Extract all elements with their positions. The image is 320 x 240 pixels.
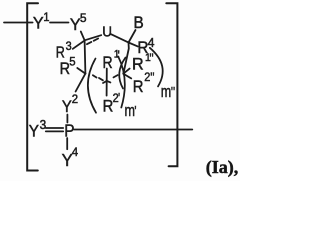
wire ring dash left 1 <box>93 75 97 77</box>
node Y2 <box>62 99 72 117</box>
wire Y1-Y5 bond <box>50 22 69 24</box>
paren m'' left <box>119 58 125 89</box>
paren m'' right <box>150 48 163 87</box>
wire Y2-P bond <box>66 115 68 123</box>
svg-text:2: 2 <box>72 93 78 106</box>
wire C1-R3 bond <box>73 41 85 49</box>
svg-text:Y: Y <box>29 122 39 141</box>
label m' <box>125 101 135 120</box>
svg-text:'': '' <box>149 51 153 66</box>
svg-text:5: 5 <box>80 11 87 25</box>
wire C3 chain bond down <box>123 43 128 74</box>
wire central chevron <box>103 81 110 83</box>
wire U-C3 bond <box>111 34 129 42</box>
wire ring dash left 2 <box>99 78 103 80</box>
wire C2-Y2 bond <box>76 74 86 92</box>
wire C1-C2 bond <box>84 40 87 73</box>
wire mC-R1'' bond <box>123 69 129 74</box>
svg-text:R: R <box>103 54 113 72</box>
node R2' <box>103 98 114 116</box>
svg-text:U: U <box>102 24 112 41</box>
wire mC-R2'' bond <box>123 74 131 79</box>
svg-text:Y: Y <box>33 13 44 32</box>
svg-text:(Ia),: (Ia), <box>206 157 239 178</box>
svg-text:B: B <box>134 15 144 33</box>
wire Y3=P double bond <box>46 127 63 129</box>
svg-text:P: P <box>64 122 74 141</box>
svg-text:': ' <box>134 103 136 118</box>
svg-text:m: m <box>161 82 171 101</box>
paren m' left <box>88 59 96 113</box>
svg-text:3: 3 <box>40 118 47 132</box>
node U <box>102 24 112 41</box>
wire C1=U solid bond <box>85 35 102 40</box>
atom P <box>64 122 74 141</box>
svg-text:4: 4 <box>72 146 79 159</box>
svg-text:2: 2 <box>144 72 150 84</box>
wire P right attachment bond <box>74 129 192 131</box>
node Y5 <box>70 14 81 33</box>
wire P-Y4 bond <box>66 138 68 149</box>
wire ring dash right <box>114 75 118 77</box>
svg-text:1: 1 <box>43 12 49 24</box>
wire central C vertical bond R1'-C-R2' <box>106 69 108 96</box>
svg-text:R: R <box>133 78 144 96</box>
wire left attachment bond <box>4 22 33 24</box>
svg-text:5: 5 <box>69 55 76 68</box>
left bracket <box>27 3 38 170</box>
wire C3-B bond <box>129 30 136 43</box>
svg-text:': ' <box>118 48 120 63</box>
node R4 <box>137 38 148 57</box>
node Y3 <box>29 122 39 141</box>
node R1' <box>103 54 113 72</box>
svg-text:'': '' <box>171 84 175 99</box>
wire C1=U dashed bond <box>87 37 100 44</box>
node R3 <box>56 43 65 61</box>
wire C3-R4 bond <box>129 43 138 47</box>
svg-text:4: 4 <box>148 36 155 50</box>
right bracket <box>166 3 177 166</box>
label m'' <box>161 82 171 101</box>
svg-text:R: R <box>132 55 144 73</box>
node B <box>134 15 144 33</box>
svg-text:m: m <box>125 101 135 120</box>
node R5 <box>60 60 70 78</box>
svg-text:': ' <box>118 91 120 106</box>
svg-text:3: 3 <box>66 41 72 53</box>
svg-text:'': '' <box>150 70 154 85</box>
node Y4 <box>62 150 73 169</box>
wire Y5-C1 bond <box>81 32 85 41</box>
wire C2-R5 bond <box>77 68 85 74</box>
paren m' right <box>118 57 125 108</box>
svg-text:Y: Y <box>62 99 72 117</box>
node R1'' <box>132 55 144 73</box>
svg-text:R: R <box>56 43 65 61</box>
node R2'' <box>133 78 144 96</box>
node Y1 <box>33 13 44 32</box>
